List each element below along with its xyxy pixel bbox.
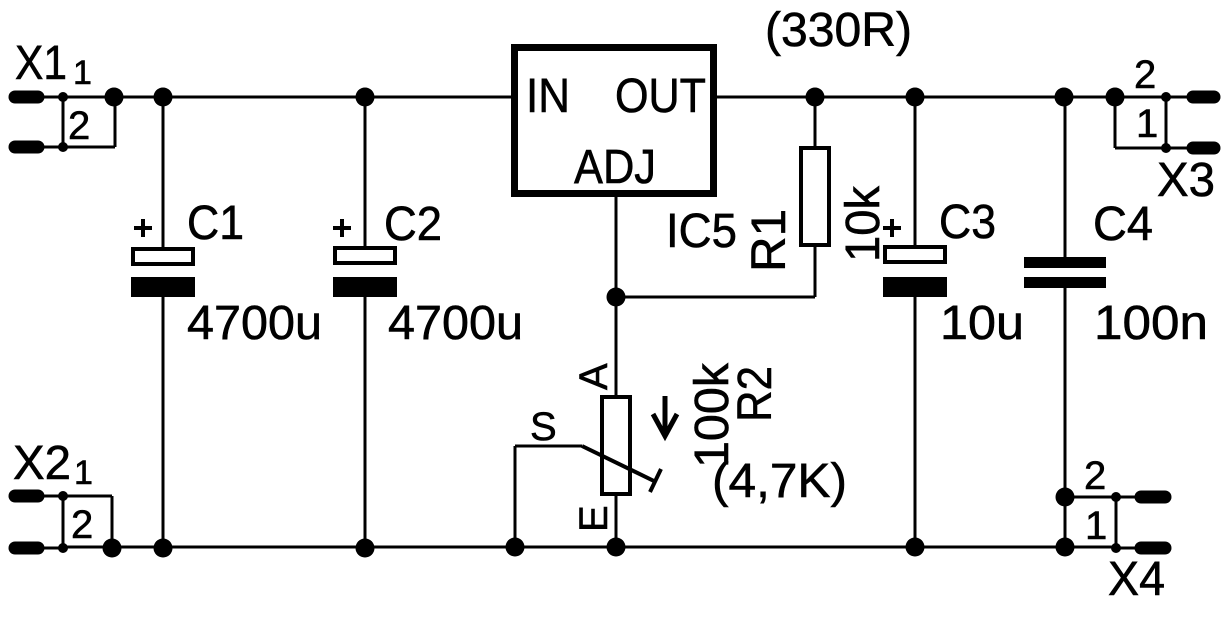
- svg-text:E: E: [572, 505, 616, 532]
- svg-text:IN: IN: [526, 70, 570, 123]
- svg-text:X4: X4: [1108, 553, 1165, 606]
- svg-text:4700u: 4700u: [388, 297, 523, 350]
- svg-text:S: S: [530, 405, 557, 449]
- svg-text:10u: 10u: [940, 297, 1024, 350]
- svg-text:R2: R2: [729, 366, 782, 422]
- svg-text:C1: C1: [187, 197, 244, 250]
- svg-text:2: 2: [68, 104, 90, 148]
- svg-text:2: 2: [1134, 53, 1156, 97]
- svg-text:A: A: [572, 363, 616, 390]
- svg-text:1: 1: [73, 54, 92, 92]
- svg-text:1: 1: [1136, 102, 1158, 146]
- svg-text:1: 1: [1085, 504, 1107, 548]
- svg-text:1: 1: [74, 454, 93, 492]
- svg-text:C4: C4: [1093, 198, 1153, 251]
- svg-text:R1: R1: [743, 209, 796, 272]
- svg-text:C3: C3: [939, 196, 996, 249]
- svg-text:10k: 10k: [837, 185, 890, 262]
- svg-text:OUT: OUT: [615, 70, 706, 123]
- svg-text:C2: C2: [384, 198, 442, 251]
- svg-text:100n: 100n: [1094, 297, 1208, 350]
- svg-text:ADJ: ADJ: [574, 141, 656, 194]
- svg-text:IC5: IC5: [666, 205, 737, 258]
- svg-text:2: 2: [1084, 454, 1106, 498]
- svg-text:X1: X1: [15, 37, 67, 90]
- svg-text:4700u: 4700u: [187, 297, 322, 350]
- svg-text:(330R): (330R): [765, 4, 912, 57]
- svg-text:X3: X3: [1157, 154, 1215, 207]
- svg-text:2: 2: [71, 503, 93, 547]
- svg-text:X2: X2: [13, 437, 71, 490]
